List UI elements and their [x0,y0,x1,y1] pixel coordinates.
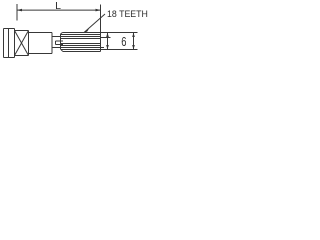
pilot shaft [56,41,64,45]
svg-text:6: 6 [121,36,126,50]
L dim left extension line [16,4,18,21]
stub extension bottom right [101,47,105,49]
leader line to spline [84,14,105,33]
hub box X diagonal 1 [15,31,29,56]
svg-text:L: L [55,0,61,12]
arrowhead L left [17,9,22,12]
svg-text:18 TEETH: 18 TEETH [107,9,148,19]
dia dim line inner [107,33,109,50]
spline left chamfer top [61,33,63,35]
cylinder body [29,33,53,54]
spline line + bottom extension line [61,49,138,51]
hub box outline [15,31,29,56]
spline bottom edge [62,51,100,53]
arrowhead dim2 down [132,45,135,50]
spline tooth lines lower [61,44,101,48]
spline left edge [60,34,62,49]
arrowhead L right [96,9,101,12]
arrowhead dim2 up [132,33,135,38]
L dimension line [17,9,101,11]
arrowhead dim1 down [106,45,109,50]
neck step [52,37,61,48]
plate left outline [4,29,15,58]
plate right edge [14,29,16,58]
arrowhead leader [84,29,89,33]
stub extension top right [101,37,111,39]
spline left chamfer bottom [61,49,63,51]
plate divider [8,29,10,58]
spline top edge + top extension line [62,32,137,34]
shaft end face + right extension of L dim [100,5,102,52]
hub box X diagonal 2 [15,31,29,56]
arrowhead dim1 up [106,33,109,38]
dia dim line outer [133,33,135,50]
spline tooth lines upper [61,35,101,39]
